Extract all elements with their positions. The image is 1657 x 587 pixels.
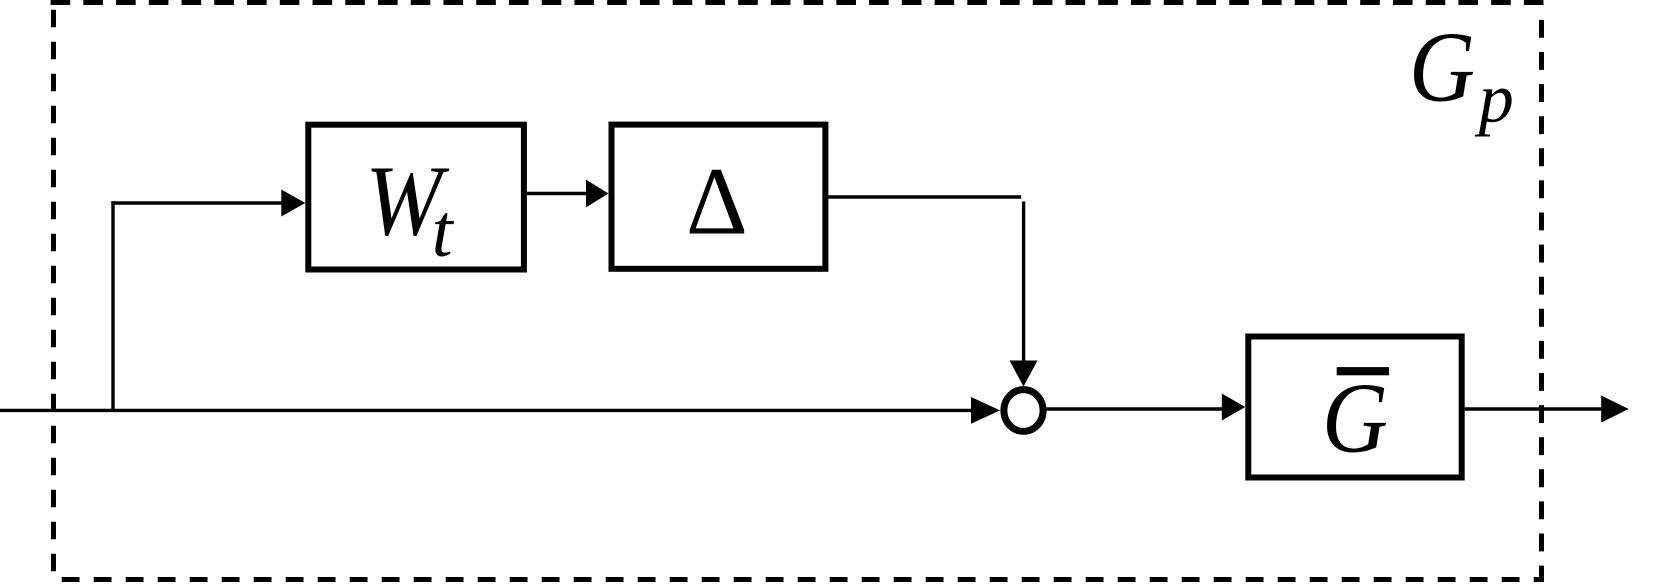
wire Delta output horizontal: [828, 195, 1021, 198]
svg-text:G: G: [1409, 10, 1475, 122]
arrowhead into Delta: [586, 180, 609, 208]
summing junction circle: [1004, 390, 1043, 432]
wire branch to Wt: [111, 201, 285, 204]
dashed boundary left edge: [51, 10, 56, 582]
svg-text:t: t: [432, 190, 455, 273]
node branch junction: [111, 201, 114, 410]
svg-text:G: G: [1322, 361, 1388, 473]
block Gbar: [1248, 337, 1461, 478]
arrowhead into Gbar: [1222, 394, 1246, 421]
wire main input line: [0, 409, 974, 412]
arrowhead into Wt: [281, 190, 305, 217]
dashed boundary bottom edge: [62, 577, 1544, 582]
label Gp: [1409, 10, 1514, 137]
dashed boundary right edge: [1539, 20, 1544, 582]
block Delta: [612, 125, 826, 269]
arrowhead output: [1601, 396, 1629, 423]
label Gbar: [1322, 361, 1389, 473]
svg-text:p: p: [1474, 61, 1514, 138]
label Wt: [365, 144, 454, 273]
wire Gbar output: [1465, 407, 1605, 410]
svg-text:Δ: Δ: [686, 147, 748, 254]
wire Delta output vertical down: [1022, 202, 1025, 363]
wire Wt to Delta: [527, 192, 590, 195]
dashed boundary top edge: [51, 0, 1544, 5]
arrowhead into summing junction top: [1010, 361, 1038, 387]
block Wt: [308, 125, 524, 270]
arrowhead into summing junction left: [971, 397, 1000, 424]
wire summing junction to Gbar: [1047, 407, 1225, 410]
